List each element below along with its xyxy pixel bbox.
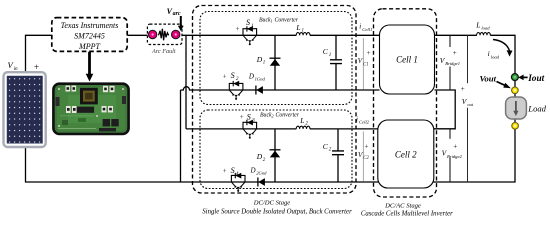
arrow MPPT to PCB (86, 52, 94, 82)
svg-text:4: 4 (236, 170, 239, 177)
svg-text:+: + (453, 143, 457, 151)
node Varc label (167, 7, 181, 17)
buck converter 2 dashed box (200, 110, 352, 189)
capacitors on PCB (103, 119, 110, 126)
svg-text:1: 1 (302, 29, 305, 34)
label D2 (256, 152, 266, 163)
svg-text:Cell 1: Cell 1 (396, 55, 418, 65)
svg-text:i: i (359, 23, 361, 31)
svg-text:1Gnd: 1Gnd (255, 76, 266, 81)
label D1Gnd (248, 72, 266, 81)
measurement line V_C1 (362, 38, 364, 90)
node lower terminal (512, 123, 519, 130)
transistor S3 (243, 120, 257, 139)
arc fault zigzag (159, 29, 169, 41)
label V_Bridge1 (439, 47, 461, 67)
diode D2 (270, 150, 281, 158)
svg-text:1: 1 (271, 19, 273, 24)
IC on PCB (77, 107, 95, 113)
wire S2 rail with hop (181, 87, 380, 90)
svg-text:3: 3 (252, 118, 255, 124)
svg-text:arc: arc (173, 11, 181, 17)
label V_C2 (358, 143, 370, 162)
arrow Iout (518, 75, 527, 81)
wire cell1 bottom jog to cell2 top (434, 90, 455, 129)
diode D1 (270, 58, 281, 66)
wire cell1 to load top rail (435, 35, 516, 96)
svg-text:load: load (481, 26, 490, 31)
capacitor C1 (330, 60, 342, 64)
svg-text:D: D (256, 55, 263, 64)
svg-text:Cascade Cells Multilevel Inver: Cascade Cells Multilevel Inverter (361, 210, 453, 217)
svg-text:MPPT: MPPT (78, 42, 100, 51)
diode D1Gnd (256, 86, 263, 95)
inverter cell 2 (378, 120, 434, 188)
svg-text:in: in (14, 66, 18, 72)
svg-text:load: load (491, 54, 500, 59)
svg-text:Converter: Converter (276, 112, 300, 118)
svg-text:Arc Fault: Arc Fault (151, 48, 176, 55)
svg-text:out: out (467, 102, 474, 107)
wire branch down to buck converter 2 (186, 35, 378, 129)
svg-text:S: S (246, 18, 250, 27)
transistor S1 (243, 26, 257, 45)
inductor L_Load (477, 33, 491, 36)
svg-text:D: D (248, 72, 254, 80)
svg-text:Bridge1: Bridge1 (445, 61, 460, 66)
svg-text:2: 2 (272, 113, 274, 118)
svg-text:Cell 2: Cell 2 (395, 149, 417, 159)
measurement line V_C2 (362, 132, 364, 182)
label S3 (240, 113, 255, 124)
DC/DC stage outer dashed box (193, 6, 357, 194)
svg-text:DC/AC Stage: DC/AC Stage (384, 202, 421, 209)
inductor L1 (296, 33, 310, 36)
load block (506, 97, 527, 119)
svg-text:1: 1 (251, 23, 254, 29)
svg-text:+: + (453, 49, 457, 57)
wire arc fault to buck converters top rail (172, 34, 380, 36)
svg-text:S: S (247, 113, 251, 122)
MPPT controller block (52, 18, 127, 52)
svg-text:2: 2 (236, 76, 239, 82)
svg-text:Vout: Vout (480, 73, 497, 83)
label V_Bridge2 (439, 139, 463, 159)
PCB photo block (53, 84, 128, 134)
svg-text:C1: C1 (363, 62, 369, 67)
solar panel PV source (4, 72, 46, 147)
arc fault terminal right (172, 30, 180, 38)
label L1 (295, 23, 304, 34)
chip on PCB (80, 88, 98, 105)
label S2 (223, 71, 239, 82)
svg-text:1: 1 (329, 53, 332, 58)
wire left return feed (180, 90, 182, 182)
wire D2 branch (274, 129, 276, 182)
label L_Load (475, 21, 490, 31)
svg-text:2Gnd: 2Gnd (256, 170, 267, 175)
label V_out (460, 83, 477, 108)
DC/AC stage dashed box (374, 9, 437, 197)
svg-text:Iout: Iout (527, 74, 544, 84)
svg-text:Load: Load (527, 103, 546, 113)
transistor S4 (231, 173, 245, 192)
svg-text:Cell2: Cell2 (359, 120, 370, 125)
svg-text:1: 1 (263, 61, 266, 66)
svg-text:D: D (250, 166, 256, 174)
svg-text:L: L (299, 116, 304, 125)
svg-text:S: S (231, 166, 235, 175)
wire panel plus to MPPT (26, 35, 52, 72)
label L2 (299, 116, 308, 127)
label Buck2 Converter (260, 112, 300, 118)
node Vout terminal (511, 74, 518, 81)
svg-text:Single Source Double Isolated: Single Source Double Isolated Output, Bu… (202, 209, 352, 216)
label i_Cell2 (356, 115, 370, 124)
svg-text:+: + (223, 73, 227, 80)
label S4 (223, 166, 239, 177)
svg-text:+: + (223, 168, 227, 175)
svg-text:+: + (34, 63, 39, 73)
svg-text:i: i (488, 49, 490, 58)
svg-text:+: + (367, 49, 371, 57)
node V_in label (8, 60, 40, 73)
arc fault box (147, 24, 182, 44)
arrow Varc (178, 16, 184, 31)
pads on PCB (66, 86, 115, 114)
svg-text:Buck: Buck (260, 112, 272, 118)
svg-text:Converter: Converter (275, 18, 299, 24)
svg-text:D: D (256, 152, 263, 161)
svg-text:S: S (231, 71, 235, 80)
svg-text:L: L (475, 21, 480, 30)
label D1 (256, 55, 266, 66)
label Buck1 Converter (259, 18, 299, 24)
svg-text:Buck: Buck (259, 18, 271, 24)
wire C1 branch (335, 35, 337, 90)
arrow Vout (497, 82, 511, 89)
svg-text:SM72445: SM72445 (74, 32, 105, 41)
transistor S2 (229, 81, 243, 100)
diode D2Gnd (258, 178, 265, 187)
voltage probe line V_out (467, 35, 469, 182)
svg-text:Cell1: Cell1 (362, 27, 372, 32)
arrow i_load (493, 40, 513, 57)
wire bottom bus (26, 97, 516, 183)
node Iout terminal (512, 87, 519, 94)
svg-text:i: i (356, 115, 358, 123)
svg-text:C2: C2 (363, 156, 369, 161)
voltage probe line V_Bridge2 (449, 129, 451, 182)
svg-text:+: + (365, 143, 369, 151)
svg-text:+: + (236, 26, 240, 33)
label V_C1 (358, 49, 371, 67)
label D2Gnd (250, 166, 268, 175)
label S1 (236, 18, 255, 33)
svg-text:L: L (295, 23, 300, 32)
arc fault terminal left (148, 30, 156, 38)
label C1 (323, 47, 332, 58)
wire MPPT to arc fault (127, 34, 157, 36)
svg-text:+: + (240, 114, 244, 121)
svg-text:Bridge2: Bridge2 (447, 154, 463, 159)
buck converter 1 dashed box (200, 12, 352, 105)
label C2 (323, 142, 332, 153)
label i_load (488, 49, 500, 59)
voltage probe line V_Bridge1 (449, 35, 451, 90)
svg-text:+: + (461, 85, 465, 93)
wire C2 branch (337, 129, 339, 182)
label i_Cell1 (359, 23, 372, 32)
inductor L2 (296, 126, 310, 129)
capacitor C2 (332, 151, 344, 155)
wire D1 branch (274, 35, 276, 90)
svg-text:DC/DC Stage: DC/DC Stage (253, 200, 291, 207)
svg-text:Texas Instruments: Texas Instruments (61, 21, 119, 30)
inverter cell 1 (380, 25, 435, 94)
